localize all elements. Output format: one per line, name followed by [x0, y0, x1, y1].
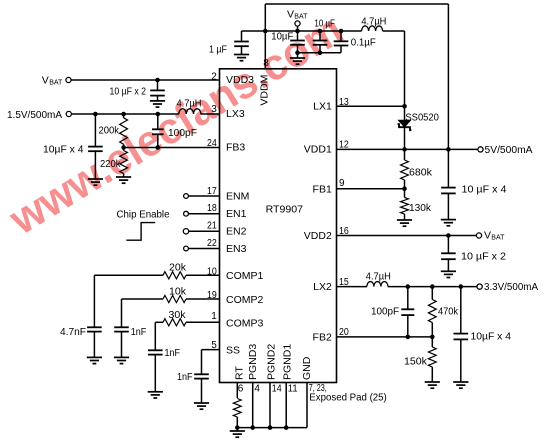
- svg-text:10: 10: [207, 267, 217, 278]
- svg-text:220k: 220k: [100, 158, 121, 170]
- svg-text:0.1µF: 0.1µF: [351, 36, 376, 48]
- svg-text:6: 6: [238, 384, 244, 395]
- svg-text:11: 11: [288, 384, 298, 395]
- svg-text:V: V: [484, 230, 491, 242]
- svg-text:VDD3: VDD3: [226, 74, 254, 86]
- svg-text:10 µF x 4: 10 µF x 4: [462, 184, 507, 196]
- svg-text:5V/500mA: 5V/500mA: [485, 145, 533, 156]
- svg-text:Chip Enable: Chip Enable: [117, 210, 170, 221]
- svg-text:BAT: BAT: [294, 14, 308, 21]
- svg-text:BAT: BAT: [49, 79, 63, 86]
- svg-text:130k: 130k: [409, 202, 432, 214]
- svg-text:1.5V/500mA: 1.5V/500mA: [7, 110, 62, 121]
- svg-text:COMP3: COMP3: [226, 317, 264, 329]
- svg-text:8: 8: [263, 58, 269, 69]
- svg-text:BAT: BAT: [491, 235, 505, 242]
- svg-text:4.7nF: 4.7nF: [60, 326, 86, 338]
- svg-text:1nF: 1nF: [131, 326, 147, 338]
- svg-text:21: 21: [207, 221, 217, 232]
- svg-text:COMP2: COMP2: [226, 294, 264, 306]
- svg-text:1: 1: [211, 311, 217, 322]
- svg-text:16: 16: [339, 226, 349, 237]
- svg-text:EN2: EN2: [226, 226, 247, 238]
- svg-text:150k: 150k: [404, 356, 428, 368]
- svg-text:4.7µH: 4.7µH: [366, 271, 391, 283]
- svg-text:FB1: FB1: [313, 183, 332, 195]
- svg-text:VDD2: VDD2: [304, 230, 332, 242]
- svg-text:200k: 200k: [99, 125, 120, 137]
- svg-text:470k: 470k: [438, 306, 459, 318]
- svg-text:SS: SS: [226, 344, 240, 356]
- svg-text:13: 13: [339, 97, 349, 108]
- svg-text:3: 3: [211, 104, 217, 115]
- svg-text:9: 9: [339, 178, 345, 189]
- svg-text:2: 2: [211, 71, 217, 82]
- svg-text:24: 24: [207, 138, 217, 149]
- svg-text:EN1: EN1: [226, 208, 247, 220]
- svg-text:VDDM: VDDM: [258, 75, 270, 106]
- svg-text:30k: 30k: [169, 309, 187, 321]
- svg-text:LX1: LX1: [313, 100, 332, 112]
- svg-text:3.3V/500mA: 3.3V/500mA: [484, 282, 538, 293]
- svg-text:5: 5: [211, 340, 217, 351]
- svg-text:19: 19: [207, 290, 217, 301]
- svg-text:22: 22: [207, 238, 217, 249]
- svg-text:LX3: LX3: [226, 108, 245, 120]
- svg-text:100pF: 100pF: [168, 127, 197, 139]
- svg-text:1nF: 1nF: [177, 371, 193, 383]
- svg-text:10µF x 4: 10µF x 4: [43, 144, 84, 156]
- svg-text:100pF: 100pF: [371, 306, 399, 318]
- svg-text:FB3: FB3: [226, 141, 245, 153]
- svg-text:PGND1: PGND1: [282, 344, 294, 380]
- svg-text:GND: GND: [301, 356, 313, 380]
- svg-text:10k: 10k: [169, 285, 187, 297]
- svg-text:10µF x 4: 10µF x 4: [471, 331, 512, 343]
- svg-text:SS0520: SS0520: [405, 111, 439, 123]
- svg-text:1 µF: 1 µF: [209, 43, 227, 55]
- svg-text:FB2: FB2: [313, 331, 332, 343]
- svg-text:10 µF x 2: 10 µF x 2: [110, 86, 147, 98]
- svg-text:PGND3: PGND3: [247, 344, 259, 380]
- svg-text:10 µF: 10 µF: [314, 17, 335, 29]
- svg-text:Exposed Pad (25): Exposed Pad (25): [309, 392, 387, 403]
- svg-text:12: 12: [339, 140, 349, 151]
- svg-text:1nF: 1nF: [165, 347, 181, 359]
- svg-text:18: 18: [207, 203, 217, 214]
- svg-text:V: V: [287, 9, 294, 21]
- svg-text:20: 20: [339, 327, 349, 338]
- svg-text:4: 4: [254, 384, 260, 395]
- svg-text:15: 15: [339, 277, 349, 288]
- svg-text:4.7µH: 4.7µH: [361, 16, 386, 28]
- svg-text:ENM: ENM: [226, 191, 249, 203]
- svg-text:EN3: EN3: [226, 243, 247, 255]
- svg-text:20k: 20k: [169, 261, 187, 273]
- svg-text:10µF: 10µF: [271, 30, 293, 42]
- svg-text:4.7µH: 4.7µH: [177, 97, 202, 109]
- svg-text:14: 14: [272, 384, 282, 395]
- svg-text:COMP1: COMP1: [226, 270, 264, 282]
- svg-text:17: 17: [207, 186, 217, 197]
- svg-text:10 µF x 2: 10 µF x 2: [461, 251, 506, 263]
- svg-text:680k: 680k: [409, 166, 433, 178]
- svg-text:VDD1: VDD1: [304, 143, 332, 155]
- svg-text:RT9907: RT9907: [266, 203, 304, 215]
- svg-text:PGND2: PGND2: [265, 344, 277, 380]
- svg-text:RT: RT: [233, 366, 245, 380]
- svg-text:LX2: LX2: [313, 281, 332, 293]
- svg-text:V: V: [42, 74, 49, 86]
